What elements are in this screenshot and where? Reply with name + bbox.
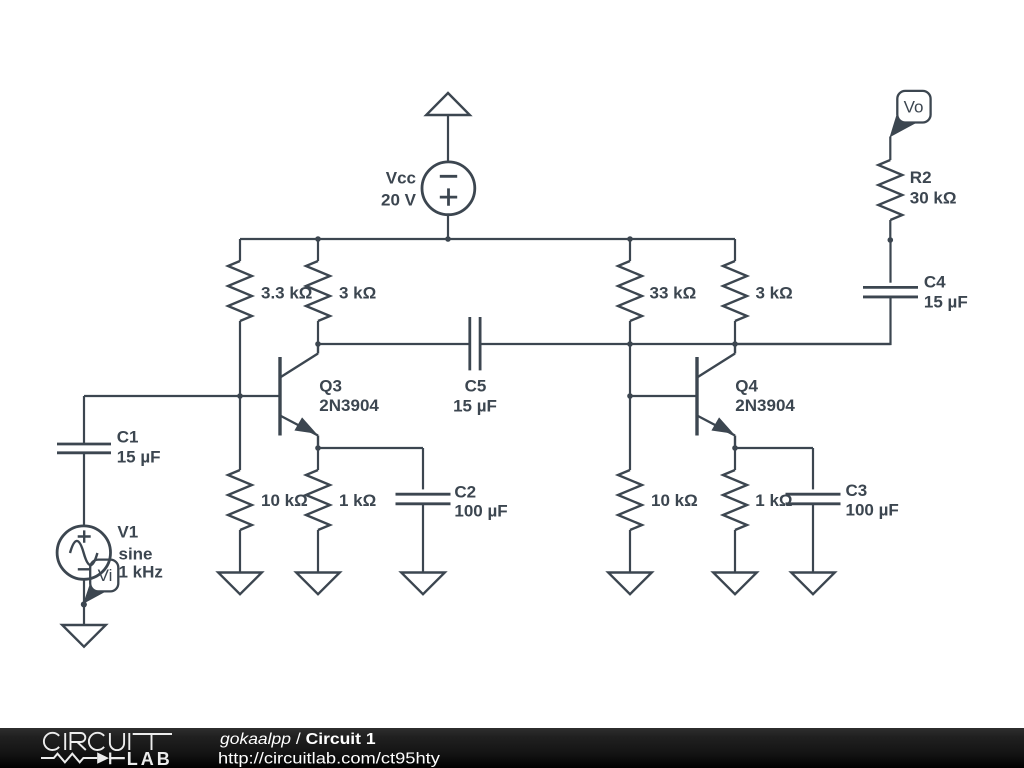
- svg-text:3 kΩ: 3 kΩ: [756, 284, 793, 303]
- svg-text:C5: C5: [465, 376, 487, 395]
- svg-text:15 µF: 15 µF: [453, 396, 497, 415]
- svg-text:LAB: LAB: [127, 749, 173, 768]
- svg-text:http://circuitlab.com/ct95hty: http://circuitlab.com/ct95hty: [218, 749, 440, 768]
- svg-text:33 kΩ: 33 kΩ: [650, 284, 697, 303]
- svg-text:15 µF: 15 µF: [924, 293, 968, 312]
- svg-text:C2: C2: [454, 483, 476, 502]
- svg-text:1 kΩ: 1 kΩ: [339, 491, 376, 510]
- svg-text:sine: sine: [119, 545, 153, 564]
- svg-text:2N3904: 2N3904: [735, 396, 795, 415]
- svg-text:C4: C4: [924, 273, 946, 292]
- svg-text:Vcc: Vcc: [386, 168, 416, 187]
- svg-text:1 kHz: 1 kHz: [119, 563, 163, 582]
- svg-text:Vo: Vo: [904, 98, 924, 117]
- svg-text:30 kΩ: 30 kΩ: [910, 189, 957, 208]
- svg-text:100 µF: 100 µF: [454, 502, 507, 521]
- svg-text:gokaalpp / Circuit 1: gokaalpp / Circuit 1: [220, 730, 376, 748]
- svg-text:20 V: 20 V: [381, 190, 417, 209]
- svg-text:2N3904: 2N3904: [319, 396, 379, 415]
- svg-text:3 kΩ: 3 kΩ: [339, 284, 376, 303]
- svg-text:10 kΩ: 10 kΩ: [651, 491, 698, 510]
- svg-text:C3: C3: [846, 481, 868, 500]
- svg-text:Q3: Q3: [319, 377, 342, 396]
- svg-text:Q4: Q4: [735, 377, 758, 396]
- svg-text:C1: C1: [117, 428, 139, 447]
- svg-text:10 kΩ: 10 kΩ: [261, 491, 308, 510]
- svg-text:100 µF: 100 µF: [846, 501, 899, 520]
- svg-text:V1: V1: [117, 523, 138, 542]
- svg-text:15 µF: 15 µF: [117, 448, 161, 467]
- svg-text:R2: R2: [910, 168, 932, 187]
